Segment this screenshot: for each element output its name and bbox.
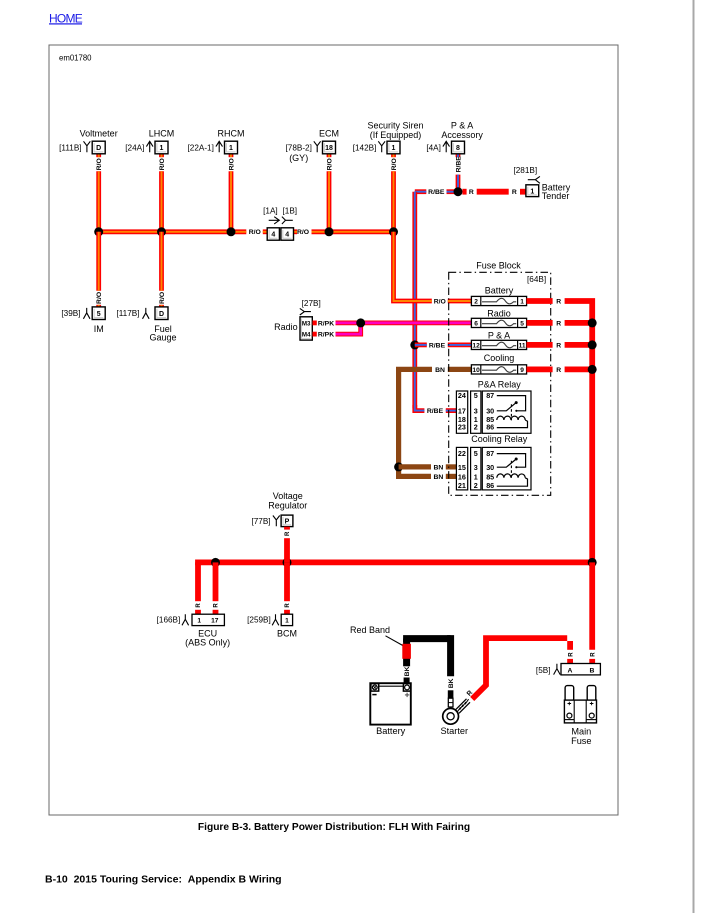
svg-text:Gauge: Gauge xyxy=(149,332,176,342)
wire R/O LHCM drop xyxy=(159,171,164,232)
svg-text:[78B-2]: [78B-2] xyxy=(285,143,311,152)
svg-text:BN: BN xyxy=(433,464,443,471)
junction dot Accessory xyxy=(454,187,463,196)
junction dot BN xyxy=(394,462,403,471)
pin box 1 of [24A] xyxy=(155,141,168,154)
relay Cooling Relay xyxy=(456,434,531,490)
wire R from P&A fuse xyxy=(527,342,553,348)
wire stub below [4A] xyxy=(456,154,461,157)
connector [24A] LHCM xyxy=(125,128,174,152)
wire R bus down to [5B] pin B xyxy=(589,562,595,649)
svg-text:R: R xyxy=(568,652,574,657)
fuse block designator [64B] xyxy=(527,275,546,284)
wire R/PK M4 stub xyxy=(313,332,317,337)
svg-text:R/BE: R/BE xyxy=(427,408,444,415)
svg-text:1: 1 xyxy=(392,145,396,152)
svg-text:em01780: em01780 xyxy=(59,54,92,63)
wire R Voltage Regulator drop xyxy=(284,527,290,530)
pin box 4 of [1B] xyxy=(281,228,294,240)
svg-text:R: R xyxy=(285,603,291,608)
svg-text:R/BE: R/BE xyxy=(429,342,446,349)
svg-text:R: R xyxy=(556,298,561,305)
wire R/PK M3 stub xyxy=(313,320,317,325)
svg-text:Voltage: Voltage xyxy=(273,491,303,501)
junction dot bus Cooling row xyxy=(588,365,597,374)
junction dot bus Radio row xyxy=(588,318,597,327)
svg-text:R: R xyxy=(469,189,474,196)
fuse block title xyxy=(476,261,521,271)
svg-text:Red Band: Red Band xyxy=(350,625,390,635)
svg-text:BN: BN xyxy=(435,367,445,374)
wire BN branch to Cooling relay pin 15 xyxy=(399,464,431,469)
svg-text:[24A]: [24A] xyxy=(125,143,144,152)
wire R/BE Accessory drop xyxy=(456,175,461,192)
wire R/O Fuel Gauge drop xyxy=(159,232,164,291)
junction dot Radio R/PK xyxy=(356,318,365,327)
svg-text:Figure B-3. Battery Power Dist: Figure B-3. Battery Power Distribution: … xyxy=(198,822,470,833)
svg-text:Tender: Tender xyxy=(542,191,570,201)
svg-text:9: 9 xyxy=(520,367,524,374)
wire R/O bus stub into [1A] xyxy=(263,229,268,234)
wire stub above Fuel Gauge xyxy=(159,305,164,308)
wire R/O bus right segment xyxy=(312,229,394,234)
svg-text:86: 86 xyxy=(486,481,494,490)
svg-text:8: 8 xyxy=(456,145,460,152)
svg-text:[1A]: [1A] xyxy=(263,206,278,215)
svg-text:R/O: R/O xyxy=(326,158,333,170)
svg-text:Voltmeter: Voltmeter xyxy=(80,128,118,138)
svg-text:HOME: HOME xyxy=(49,11,83,25)
svg-text:ECM: ECM xyxy=(319,128,339,138)
page right rule xyxy=(693,0,695,913)
svg-text:[27B]: [27B] xyxy=(302,299,321,308)
main fuse icon xyxy=(564,686,596,723)
svg-text:P & A: P & A xyxy=(488,330,510,340)
svg-text:[22A-1]: [22A-1] xyxy=(187,143,213,152)
pin box D of [117B] xyxy=(155,307,168,320)
pin box P of [77B] xyxy=(281,515,293,527)
svg-text:R/BE: R/BE xyxy=(428,189,445,196)
wire BN into Cooling relay pin 16 xyxy=(446,474,457,479)
svg-text:1: 1 xyxy=(197,617,201,624)
svg-text:1: 1 xyxy=(229,145,233,152)
svg-text:R: R xyxy=(556,320,561,327)
svg-text:Starter: Starter xyxy=(441,726,469,736)
svg-text:[39B]: [39B] xyxy=(61,309,80,318)
wire stub below [24A] xyxy=(159,154,164,157)
starter lug and ring terminal xyxy=(443,690,470,724)
svg-text:R: R xyxy=(214,603,220,608)
svg-text:A: A xyxy=(568,667,573,674)
wire R from Battery fuse xyxy=(527,298,553,304)
svg-text:BCM: BCM xyxy=(277,629,297,639)
svg-text:5: 5 xyxy=(474,391,478,400)
svg-text:86: 86 xyxy=(486,423,494,432)
fuse block dash-dot border xyxy=(449,272,551,495)
fuse Cooling (10/9) xyxy=(471,353,526,374)
svg-text:R/O: R/O xyxy=(96,158,103,170)
svg-text:Battery: Battery xyxy=(376,726,406,736)
red band marker xyxy=(402,644,411,659)
fuse Battery (2/1) xyxy=(471,285,526,305)
svg-text:B: B xyxy=(590,667,595,674)
HOME link xyxy=(49,11,83,25)
svg-text:17: 17 xyxy=(211,617,219,624)
wire R to ECU pin 1 xyxy=(195,562,201,601)
connector [39B] IM xyxy=(61,308,90,319)
label Main Fuse xyxy=(571,727,591,747)
svg-text:1: 1 xyxy=(285,617,289,624)
wire R/O RHCM drop xyxy=(229,171,234,232)
svg-text:[1B]: [1B] xyxy=(283,206,298,215)
wire R/BE vertical trunk xyxy=(412,192,417,409)
connector [5B] Main Fuse xyxy=(536,664,600,675)
svg-text:87: 87 xyxy=(486,449,494,458)
svg-text:Regulator: Regulator xyxy=(268,501,307,511)
wire R right bus vertical xyxy=(589,323,595,563)
svg-text:22: 22 xyxy=(458,449,466,458)
svg-text:R: R xyxy=(512,189,517,196)
wire stub below [22A-1] xyxy=(229,154,234,157)
wire R/O IM drop xyxy=(96,232,101,291)
svg-text:2: 2 xyxy=(474,481,478,490)
junction dot ECM xyxy=(325,227,334,236)
pin box 5 of [39B] xyxy=(92,307,105,320)
label Starter xyxy=(441,726,469,736)
pin box D of [111B] xyxy=(92,141,105,154)
svg-text:[111B]: [111B] xyxy=(59,143,81,152)
svg-text:R/O: R/O xyxy=(434,298,446,305)
wire R from Radio fuse xyxy=(527,320,553,326)
svg-text:[281B]: [281B] xyxy=(513,166,537,175)
svg-text:R/O: R/O xyxy=(297,229,309,236)
svg-text:R/PK: R/PK xyxy=(318,320,334,327)
svg-text:[64B]: [64B] xyxy=(527,275,546,284)
svg-text:2: 2 xyxy=(474,298,478,305)
svg-text:12: 12 xyxy=(472,342,480,349)
svg-text:[142B]: [142B] xyxy=(353,143,377,152)
svg-text:21: 21 xyxy=(458,481,466,490)
svg-text:15: 15 xyxy=(458,463,466,472)
wire R/O bus left segment xyxy=(99,229,247,234)
svg-text:R/PK: R/PK xyxy=(318,332,334,339)
wire R/O ECM drop xyxy=(327,171,332,232)
junction dot Voltmeter/IM xyxy=(94,227,103,236)
svg-text:4: 4 xyxy=(271,232,275,239)
svg-text:R: R xyxy=(556,342,561,349)
connector [22A-1] RHCM xyxy=(187,128,244,152)
junction dot R/BE at P&A fuse row xyxy=(410,340,419,349)
figure caption xyxy=(198,822,470,833)
pin box 4 of [1A] xyxy=(267,228,279,240)
pin box 1 of [22A-1] xyxy=(225,141,238,154)
wire R/BE branch to P&A fuse xyxy=(415,342,427,347)
svg-text:R: R xyxy=(196,603,202,608)
connector [77B] Voltage Regulator xyxy=(251,491,307,526)
wire R stub into [5B] pin B xyxy=(589,659,595,664)
svg-text:87: 87 xyxy=(486,391,494,400)
inline connector [1A][1B] xyxy=(263,206,297,224)
svg-text:18: 18 xyxy=(325,145,333,152)
svg-text:RHCM: RHCM xyxy=(218,128,245,138)
wire R/PK M3 run to Radio fuse xyxy=(336,320,472,325)
svg-text:R/O: R/O xyxy=(159,292,166,304)
svg-text:Battery: Battery xyxy=(485,285,514,295)
svg-text:B-10 2015 Touring Service: A: B-10 2015 Touring Service: Appendix B Wi… xyxy=(45,874,282,886)
svg-text:R/O: R/O xyxy=(96,292,103,304)
svg-text:R/BE: R/BE xyxy=(455,156,462,173)
wire R/O Security Siren drop xyxy=(391,171,396,232)
fuse Radio (6/5) xyxy=(471,309,526,328)
svg-text:D: D xyxy=(159,311,164,318)
svg-text:(If Equipped): (If Equipped) xyxy=(370,130,422,140)
wire R bottom bus xyxy=(195,560,592,566)
wire R from Cooling fuse xyxy=(527,366,553,372)
junction dot bus P&A row xyxy=(588,340,597,349)
svg-text:R/O: R/O xyxy=(391,158,398,170)
pin box 1 of [281B] xyxy=(526,185,539,197)
wire BK battery positive cable xyxy=(403,639,410,667)
wire stub below [111B] xyxy=(96,154,101,157)
connector [111B] Voltmeter xyxy=(59,128,118,152)
svg-text:1: 1 xyxy=(530,188,534,195)
svg-text:BN: BN xyxy=(433,474,443,481)
connector [281B] Battery Tender xyxy=(513,166,539,183)
svg-text:4: 4 xyxy=(285,232,289,239)
wire R/O to Battery fuse xyxy=(394,232,432,301)
junction dot RHCM xyxy=(227,227,236,236)
wire R starter to main fuse A xyxy=(472,641,486,699)
pin box 8 of [4A] xyxy=(452,141,465,154)
wire stub below [142B] xyxy=(391,154,396,157)
wire R/BE elbow to relay pin 17 xyxy=(415,405,425,411)
wire R/PK M4 riser xyxy=(336,323,361,334)
svg-text:Radio: Radio xyxy=(274,322,298,332)
svg-text:M4: M4 xyxy=(302,332,311,339)
svg-text:(ABS Only): (ABS Only) xyxy=(185,637,230,647)
wire stub below [78B-2] xyxy=(327,154,332,157)
svg-text:23: 23 xyxy=(458,423,466,432)
connector [27B] Radio xyxy=(274,299,321,340)
svg-text:D: D xyxy=(96,145,101,152)
svg-text:[259B]: [259B] xyxy=(247,615,271,624)
svg-text:IM: IM xyxy=(94,324,104,334)
svg-text:Fuse: Fuse xyxy=(571,736,591,746)
svg-text:11: 11 xyxy=(519,342,526,349)
junction dot bottom bus right xyxy=(588,558,597,567)
connector [142B] SecuritySiren xyxy=(353,121,424,153)
connector [259B] BCM xyxy=(247,614,297,638)
junction dot Security-Siren xyxy=(389,227,398,236)
junction dot bottom bus BCM xyxy=(283,558,292,567)
svg-text:Radio: Radio xyxy=(487,309,511,319)
wire R/O Voltmeter drop xyxy=(96,171,101,232)
svg-text:Accessory: Accessory xyxy=(441,130,483,140)
svg-text:1: 1 xyxy=(520,298,524,305)
svg-text:5: 5 xyxy=(474,449,478,458)
label Red Band xyxy=(350,625,403,646)
connector [4A] PA-Accessory xyxy=(426,121,483,153)
wire stub above IM xyxy=(96,305,101,308)
svg-text:R/O: R/O xyxy=(159,158,166,170)
label Battery xyxy=(376,726,406,736)
svg-text:2: 2 xyxy=(474,423,478,432)
junction dot bottom bus ECU xyxy=(211,558,220,567)
svg-text:24: 24 xyxy=(458,391,466,400)
svg-text:[5B]: [5B] xyxy=(536,666,551,675)
svg-text:[166B]: [166B] xyxy=(157,615,181,624)
wire R to ECU pin 17 xyxy=(213,562,219,601)
svg-text:LHCM: LHCM xyxy=(149,128,175,138)
svg-text:P&A Relay: P&A Relay xyxy=(478,379,522,389)
connector [166B] ECU xyxy=(157,614,230,647)
wire BN from Cooling fuse xyxy=(448,367,472,372)
svg-text:R/O: R/O xyxy=(249,229,261,236)
battery icon xyxy=(370,683,411,724)
svg-text:R: R xyxy=(590,652,596,657)
svg-text:5: 5 xyxy=(520,320,524,327)
svg-text:6: 6 xyxy=(474,320,478,327)
svg-text:[77B]: [77B] xyxy=(251,517,270,526)
svg-text:Fuse Block: Fuse Block xyxy=(476,261,521,271)
wire R/BE Accessory horizontal xyxy=(415,189,427,194)
fuse P & A (12/11) xyxy=(471,330,526,349)
junction dot LHCM/Fuel-Gauge xyxy=(157,227,166,236)
wire R stub into [5B] pin A xyxy=(567,659,573,664)
wire BK stub into battery terminal xyxy=(404,678,410,684)
svg-text:Main: Main xyxy=(571,727,591,737)
svg-text:5: 5 xyxy=(97,311,101,318)
svg-text:1: 1 xyxy=(160,145,164,152)
svg-text:(GY): (GY) xyxy=(289,153,308,163)
svg-text:3: 3 xyxy=(474,463,478,472)
wire R/O bus stub out of [1B] xyxy=(293,229,297,234)
page footer xyxy=(45,874,282,886)
svg-text:Cooling: Cooling xyxy=(484,353,515,363)
svg-text:R/O: R/O xyxy=(228,158,235,170)
relay P&A Relay xyxy=(456,379,531,433)
svg-text:10: 10 xyxy=(472,367,480,374)
pin box 1 of [142B] xyxy=(387,141,400,154)
svg-text:BK: BK xyxy=(448,678,455,688)
svg-text:R: R xyxy=(285,531,291,536)
svg-text:30: 30 xyxy=(486,463,494,472)
svg-text:BK: BK xyxy=(404,666,411,676)
svg-text:Cooling Relay: Cooling Relay xyxy=(471,434,528,444)
diagram border frame xyxy=(49,45,618,815)
svg-text:R: R xyxy=(556,367,561,374)
pin box 18 of [78B-2] xyxy=(323,141,336,154)
svg-text:[4A]: [4A] xyxy=(426,143,441,152)
svg-text:P: P xyxy=(285,519,290,526)
wire R to Battery Tender xyxy=(462,189,466,195)
connector [78B-2] ECM xyxy=(285,128,339,163)
connector [117B] Fuel Gauge xyxy=(116,308,149,319)
wire R to BCM pin 1 xyxy=(284,562,290,601)
wire R bus top corner xyxy=(565,301,593,323)
svg-text:[117B]: [117B] xyxy=(116,309,139,318)
svg-text:M3: M3 xyxy=(302,320,311,327)
